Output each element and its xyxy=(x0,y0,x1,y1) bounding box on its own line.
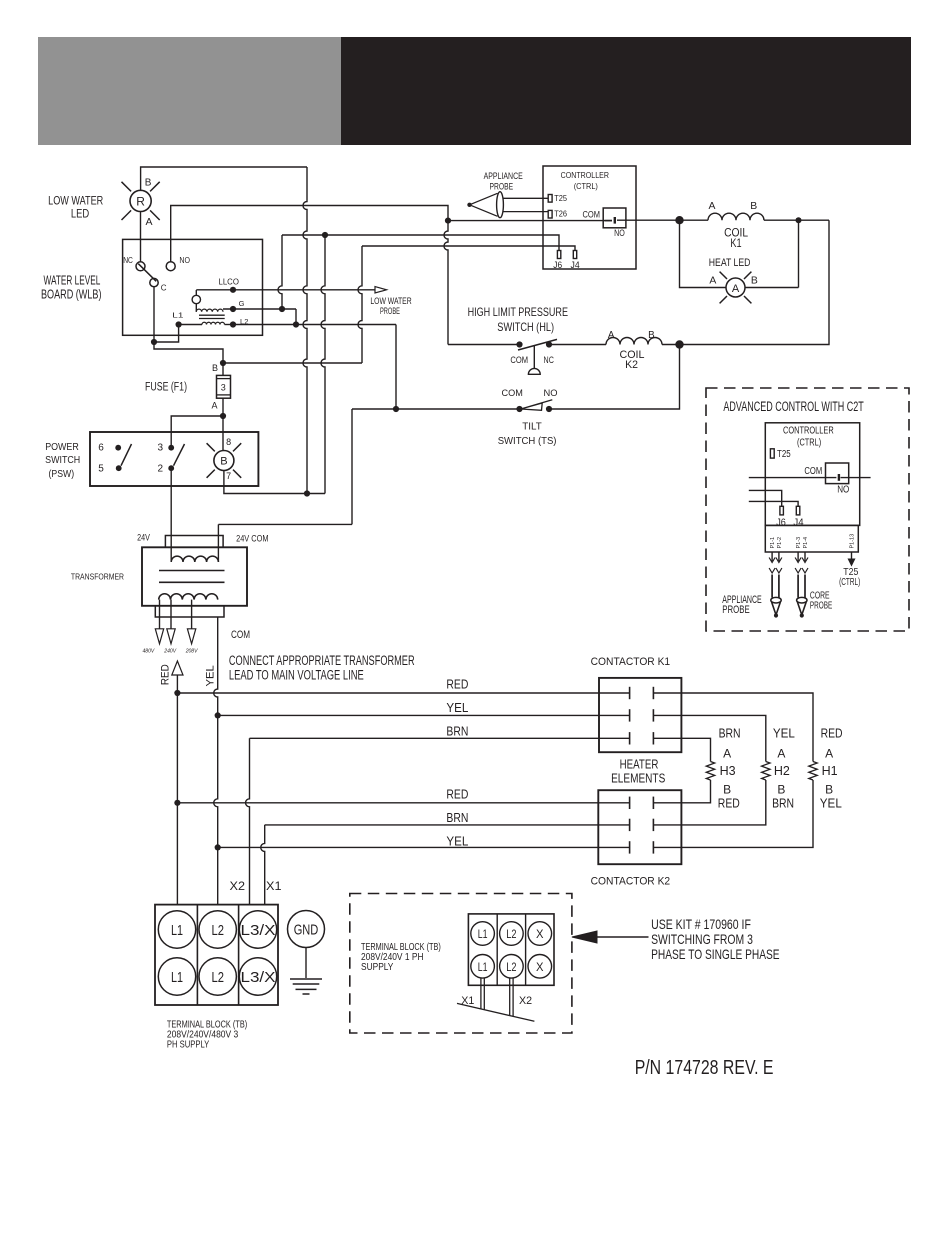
svg-text:YEL: YEL xyxy=(205,665,217,686)
svg-text:L1: L1 xyxy=(478,960,488,974)
svg-text:LED: LED xyxy=(71,207,89,221)
svg-text:CONNECT APPROPRIATE TRANSFORME: CONNECT APPROPRIATE TRANSFORMER xyxy=(229,653,415,668)
svg-text:HIGH LIMIT PRESSURE: HIGH LIMIT PRESSURE xyxy=(468,305,568,319)
svg-text:A: A xyxy=(777,747,785,761)
svg-text:K2: K2 xyxy=(625,359,638,371)
svg-text:X1: X1 xyxy=(461,995,474,1007)
svg-text:NC: NC xyxy=(544,355,555,365)
svg-text:J6: J6 xyxy=(553,259,562,270)
svg-text:SWITCH (TS): SWITCH (TS) xyxy=(498,436,557,447)
svg-text:24V COM: 24V COM xyxy=(236,533,268,543)
svg-text:8: 8 xyxy=(226,437,231,447)
svg-text:(CTRL): (CTRL) xyxy=(797,437,821,448)
svg-text:L2: L2 xyxy=(211,969,224,986)
svg-text:T25: T25 xyxy=(777,449,791,460)
svg-text:L2: L2 xyxy=(506,927,516,941)
svg-text:H1: H1 xyxy=(822,764,838,778)
svg-text:PHASE TO SINGLE PHASE: PHASE TO SINGLE PHASE xyxy=(651,946,780,962)
svg-text:RED: RED xyxy=(821,726,843,740)
svg-text:BRN: BRN xyxy=(446,725,468,739)
svg-text:PH SUPPLY: PH SUPPLY xyxy=(167,1040,210,1051)
svg-text:L2: L2 xyxy=(211,922,224,939)
svg-text:6: 6 xyxy=(98,443,104,454)
svg-text:L2: L2 xyxy=(506,960,516,974)
svg-text:PROBE: PROBE xyxy=(490,182,514,193)
svg-text:B: B xyxy=(777,783,785,797)
svg-text:J4: J4 xyxy=(571,259,580,270)
svg-text:NO: NO xyxy=(179,256,190,265)
svg-text:J4: J4 xyxy=(793,517,804,528)
svg-text:COM: COM xyxy=(231,629,250,641)
svg-text:YEL: YEL xyxy=(820,797,842,811)
svg-text:NC: NC xyxy=(123,256,133,265)
svg-text:K1: K1 xyxy=(730,238,741,250)
svg-text:LEAD TO MAIN VOLTAGE LINE: LEAD TO MAIN VOLTAGE LINE xyxy=(229,667,364,682)
svg-text:B: B xyxy=(220,456,227,468)
svg-text:NO: NO xyxy=(614,227,625,238)
svg-text:COM: COM xyxy=(502,388,523,398)
svg-text:X2: X2 xyxy=(230,881,246,893)
svg-text:P1-2: P1-2 xyxy=(777,537,783,549)
svg-text:X1: X1 xyxy=(266,881,282,893)
svg-text:RED: RED xyxy=(160,664,172,685)
svg-text:L3/X: L3/X xyxy=(241,969,276,986)
svg-text:SWITCHING FROM 3: SWITCHING FROM 3 xyxy=(651,931,753,947)
svg-text:3: 3 xyxy=(158,443,164,454)
svg-text:P1-3: P1-3 xyxy=(796,537,802,549)
svg-text:P1-13: P1-13 xyxy=(850,534,856,549)
svg-text:CONTROLLER: CONTROLLER xyxy=(783,426,834,437)
svg-text:H2: H2 xyxy=(774,764,790,778)
svg-text:C: C xyxy=(161,283,167,292)
svg-text:A: A xyxy=(608,330,615,341)
svg-text:POWER: POWER xyxy=(45,442,79,453)
svg-text:P1-1: P1-1 xyxy=(770,537,776,549)
svg-text:A: A xyxy=(825,747,833,761)
svg-text:7: 7 xyxy=(226,471,231,481)
svg-text:240V: 240V xyxy=(163,649,177,655)
svg-text:LOW WATER: LOW WATER xyxy=(48,194,103,208)
svg-text:L1: L1 xyxy=(478,927,488,941)
svg-text:NO: NO xyxy=(837,485,849,496)
svg-text:24V: 24V xyxy=(137,533,150,543)
svg-text:BOARD (WLB): BOARD (WLB) xyxy=(41,288,102,302)
svg-text:BRN: BRN xyxy=(719,726,741,740)
svg-text:HEAT LED: HEAT LED xyxy=(709,257,751,269)
svg-text:B: B xyxy=(750,201,757,212)
svg-text:3: 3 xyxy=(221,383,226,393)
svg-text:480V: 480V xyxy=(143,649,156,655)
svg-text:A: A xyxy=(723,747,731,761)
svg-text:5: 5 xyxy=(98,464,104,475)
svg-text:NO: NO xyxy=(544,388,558,398)
svg-text:(CTRL): (CTRL) xyxy=(574,181,598,191)
svg-text:COM: COM xyxy=(804,466,822,477)
svg-text:T26: T26 xyxy=(554,209,567,219)
svg-text:ELEMENTS: ELEMENTS xyxy=(611,771,665,785)
svg-text:A: A xyxy=(709,201,716,212)
svg-text:FUSE (F1): FUSE (F1) xyxy=(145,382,187,394)
svg-text:L1: L1 xyxy=(171,922,183,939)
svg-text:X: X xyxy=(536,960,544,974)
svg-text:L1: L1 xyxy=(172,310,183,319)
svg-text:PROBE: PROBE xyxy=(810,601,832,612)
svg-text:L1: L1 xyxy=(171,969,183,986)
svg-text:GND: GND xyxy=(294,922,319,939)
svg-text:J6: J6 xyxy=(776,517,786,528)
svg-text:X2: X2 xyxy=(519,995,532,1007)
svg-text:TRANSFORMER: TRANSFORMER xyxy=(71,571,124,581)
svg-text:BRN: BRN xyxy=(446,811,468,825)
svg-text:H3: H3 xyxy=(720,764,736,778)
svg-text:SWITCH: SWITCH xyxy=(45,455,80,466)
svg-text:APPLIANCE: APPLIANCE xyxy=(484,171,523,182)
svg-text:X: X xyxy=(536,927,544,941)
svg-text:T25: T25 xyxy=(554,193,567,203)
svg-text:RED: RED xyxy=(718,797,740,811)
svg-text:SWITCH (HL): SWITCH (HL) xyxy=(497,320,554,334)
svg-text:CONTROLLER: CONTROLLER xyxy=(561,170,609,180)
svg-text:BRN: BRN xyxy=(772,797,794,811)
svg-text:L3/X: L3/X xyxy=(241,922,276,939)
svg-text:R: R xyxy=(136,194,145,208)
svg-text:(PSW): (PSW) xyxy=(49,469,75,480)
svg-text:2: 2 xyxy=(158,464,164,475)
svg-text:TILT: TILT xyxy=(522,422,542,433)
svg-text:B: B xyxy=(145,177,152,188)
svg-text:A: A xyxy=(211,401,217,411)
svg-text:RED: RED xyxy=(446,788,468,802)
svg-text:B: B xyxy=(825,783,833,797)
svg-text:RED: RED xyxy=(446,678,468,692)
svg-text:ADVANCED CONTROL WITH C2T: ADVANCED CONTROL WITH C2T xyxy=(723,399,863,414)
svg-text:YEL: YEL xyxy=(446,701,468,715)
svg-text:A: A xyxy=(709,276,716,287)
svg-text:PROBE: PROBE xyxy=(380,306,400,317)
svg-text:HEATER: HEATER xyxy=(620,758,659,772)
svg-text:CONTACTOR K2: CONTACTOR K2 xyxy=(591,876,671,888)
svg-text:A: A xyxy=(146,216,153,228)
svg-text:YEL: YEL xyxy=(773,726,795,740)
svg-text:YEL: YEL xyxy=(446,835,468,849)
svg-text:COM: COM xyxy=(583,208,601,219)
svg-text:CONTACTOR K1: CONTACTOR K1 xyxy=(591,656,671,668)
svg-text:G: G xyxy=(239,299,245,308)
svg-text:B: B xyxy=(723,783,731,797)
svg-text:P/N 174728 REV. E: P/N 174728 REV. E xyxy=(635,1056,774,1079)
svg-text:B: B xyxy=(648,330,655,341)
svg-text:(CTRL): (CTRL) xyxy=(839,577,860,588)
svg-text:B: B xyxy=(751,276,758,287)
svg-text:PROBE: PROBE xyxy=(722,604,750,616)
svg-text:WATER LEVEL: WATER LEVEL xyxy=(44,274,101,288)
svg-text:LLCO: LLCO xyxy=(219,277,239,286)
svg-text:USE KIT # 170960 IF: USE KIT # 170960 IF xyxy=(651,916,751,932)
svg-text:B: B xyxy=(212,363,218,373)
svg-text:A: A xyxy=(732,283,740,295)
svg-text:COM: COM xyxy=(510,355,528,365)
svg-text:208V: 208V xyxy=(185,649,199,655)
svg-text:P1-4: P1-4 xyxy=(803,537,809,549)
svg-text:SUPPLY: SUPPLY xyxy=(361,962,394,973)
